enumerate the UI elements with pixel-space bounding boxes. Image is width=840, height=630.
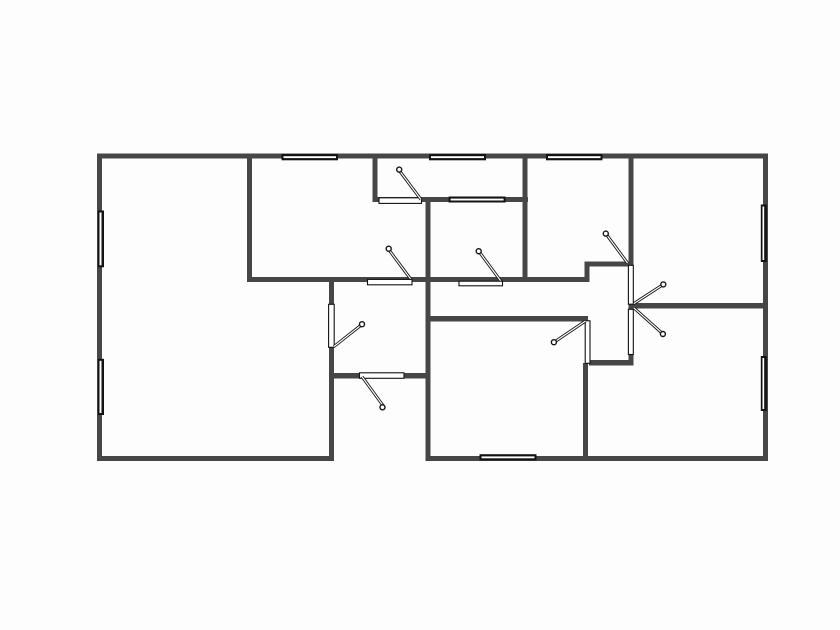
wall B: long horizontal mid wall <box>247 277 590 282</box>
wall: bottom exterior right segment <box>426 456 769 461</box>
door D3 leaf <box>334 325 362 347</box>
door opening P2 on wall N <box>628 309 633 354</box>
door opening P1 on wall N <box>628 265 633 304</box>
window W1: top wall left <box>282 154 339 160</box>
door opening D1 on wall E <box>379 198 422 204</box>
window W5: left wall lower <box>98 359 104 415</box>
wall A: vertical, right of living room <box>247 154 252 283</box>
window W7: right wall lower <box>761 356 767 411</box>
door D3 hinge circle <box>360 322 365 327</box>
wall I: horizontal to right wall <box>631 303 768 309</box>
door D4 hinge circle <box>476 249 481 254</box>
door D1 hinge circle <box>397 167 402 172</box>
wall C: vertical hall/living, lower part <box>329 345 334 462</box>
wall K: short horizontal at vestibule bottom <box>589 360 634 366</box>
door D5 hinge circle <box>380 405 385 410</box>
door D6 hinge circle <box>551 340 556 345</box>
door opening D3 on wall C <box>329 304 335 347</box>
door opening D4 on wall B <box>459 281 503 286</box>
wall F: horizontal corridor bottom <box>426 316 588 322</box>
window W3: top wall right <box>546 154 603 160</box>
wall: left exterior <box>97 154 102 462</box>
wall L: long vertical center <box>426 197 431 461</box>
wall: bottom exterior left segment <box>97 456 334 461</box>
door opening D2 on wall B <box>368 279 413 284</box>
door D8 hinge circle <box>661 282 666 287</box>
wall G: vertical, top stub <box>583 316 588 322</box>
wall N hub stub <box>629 303 634 309</box>
door D9 hinge circle <box>660 332 665 337</box>
window W4: left wall upper <box>98 211 104 268</box>
wall M: vertical at x525 <box>523 154 528 283</box>
door D5 leaf (entry door) <box>362 377 383 406</box>
door D7 hinge circle <box>603 231 608 236</box>
wall H: short horizontal above vestibule <box>585 262 631 267</box>
wall: top exterior <box>97 154 768 159</box>
wall J: horizontal entry hall bottom <box>329 373 431 379</box>
door opening D6 on wall G <box>585 321 590 364</box>
wall G: vertical, lower part <box>583 363 588 461</box>
wall D: short vertical at top middle <box>373 154 378 203</box>
door D4 leaf <box>479 252 500 281</box>
door D9 leaf <box>634 308 662 333</box>
door D2 hinge circle <box>386 246 391 251</box>
wall N: vertical at x631 top <box>629 154 634 266</box>
window W6: right wall upper <box>761 205 767 263</box>
wall E: horizontal under balcony room <box>373 197 529 202</box>
window W8: bottom wall <box>480 454 537 460</box>
door D8 leaf <box>634 285 663 304</box>
wall: right exterior <box>763 154 768 462</box>
wall C: vertical hall/living, upper part <box>329 277 334 305</box>
wall N bottom stub <box>629 355 634 366</box>
door D7 leaf <box>606 234 627 263</box>
door opening D5 on wall J (entry) <box>360 373 405 379</box>
door D1 leaf <box>400 171 422 200</box>
window W2: top wall middle <box>429 154 486 160</box>
window WE: interior window on wall E <box>449 197 506 203</box>
wall O: jog connecting H to B <box>585 262 590 283</box>
door D2 leaf <box>389 250 410 279</box>
door D6 leaf <box>555 321 586 342</box>
